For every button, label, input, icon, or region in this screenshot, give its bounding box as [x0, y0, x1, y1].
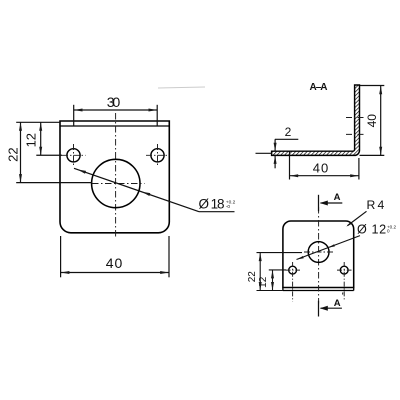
main vertical centerline: [318, 207, 320, 304]
svg-text:22: 22: [247, 271, 258, 283]
dim 30 line: [74, 109, 157, 111]
hole centerline tick upper: [346, 117, 365, 119]
dim 30 extension lines: [73, 105, 75, 126]
faint scan artifact: [158, 87, 205, 88]
plate outline: [60, 121, 169, 233]
big hole horizontal centerline: [92, 183, 145, 185]
leader R4: [348, 211, 367, 225]
svg-text:A–A: A–A: [310, 82, 328, 93]
svg-text:12: 12: [24, 133, 39, 147]
dim 40 line: [61, 272, 169, 274]
dim 2: [275, 138, 298, 140]
small hole right: [151, 149, 164, 162]
svg-text:22: 22: [6, 147, 21, 161]
center hole horizontal centerline: [304, 251, 334, 253]
svg-text:40: 40: [365, 114, 379, 128]
svg-text:40: 40: [106, 255, 123, 271]
dim 40 horizontal leg extensions: [289, 152, 291, 180]
dim 22 top extension (to circle center): [257, 252, 303, 254]
svg-text:30: 30: [107, 95, 121, 111]
svg-text:2: 2: [285, 125, 292, 139]
bend line (flange edge): [60, 125, 169, 127]
dim 12 top extension: [269, 269, 286, 271]
small hole left: [67, 149, 80, 162]
bottom edge second line: [283, 290, 354, 292]
dim 22/12 top extension: [16, 121, 60, 123]
dim 40 horizontal line: [290, 175, 359, 177]
svg-text:12: 12: [258, 276, 269, 288]
hole centerline tick lower: [346, 133, 365, 135]
svg-text:R 4: R 4: [367, 198, 385, 212]
small hole right crosshair: [146, 154, 169, 156]
leader line Ø18: [74, 168, 199, 211]
svg-text:A: A: [334, 192, 341, 203]
bottom shared extension: [257, 290, 283, 292]
dim 40 vertical extensions: [360, 85, 384, 87]
section line A top: [318, 195, 320, 211]
small hole right: [340, 266, 348, 274]
section line A' bottom: [318, 301, 320, 317]
dim 22 line: [259, 253, 261, 291]
small hole right crosshair: [337, 269, 352, 271]
dim 40 vertical line: [380, 86, 382, 155]
big hole circle Ø18: [92, 159, 140, 207]
dim 40 extension lines: [60, 236, 62, 277]
center hole Ø12: [308, 242, 329, 263]
svg-text:40: 40: [313, 161, 328, 176]
small hole left crosshair: [62, 154, 86, 156]
left end mid line: [256, 152, 272, 154]
leader Ø12: [297, 236, 361, 260]
small hole left: [289, 266, 297, 274]
dim 12 line: [40, 122, 42, 155]
svg-text:Ø 12: Ø 12: [357, 222, 386, 236]
dim 22 line: [20, 122, 22, 182]
small hole left crosshair: [286, 269, 301, 271]
svg-text:Ø 18: Ø 18: [199, 197, 225, 212]
svg-text:A: A: [334, 298, 341, 309]
svg-text:-0: -0: [226, 204, 231, 210]
dim 22 bottom extension: [16, 182, 92, 184]
L profile section: [272, 85, 360, 155]
plate outline: [283, 221, 354, 288]
vertical centerline: [115, 113, 117, 238]
dim 12 bottom extension: [36, 154, 62, 156]
svg-text:0: 0: [387, 228, 390, 233]
dim 12 line: [272, 270, 274, 291]
svg-text:': ': [342, 292, 344, 301]
